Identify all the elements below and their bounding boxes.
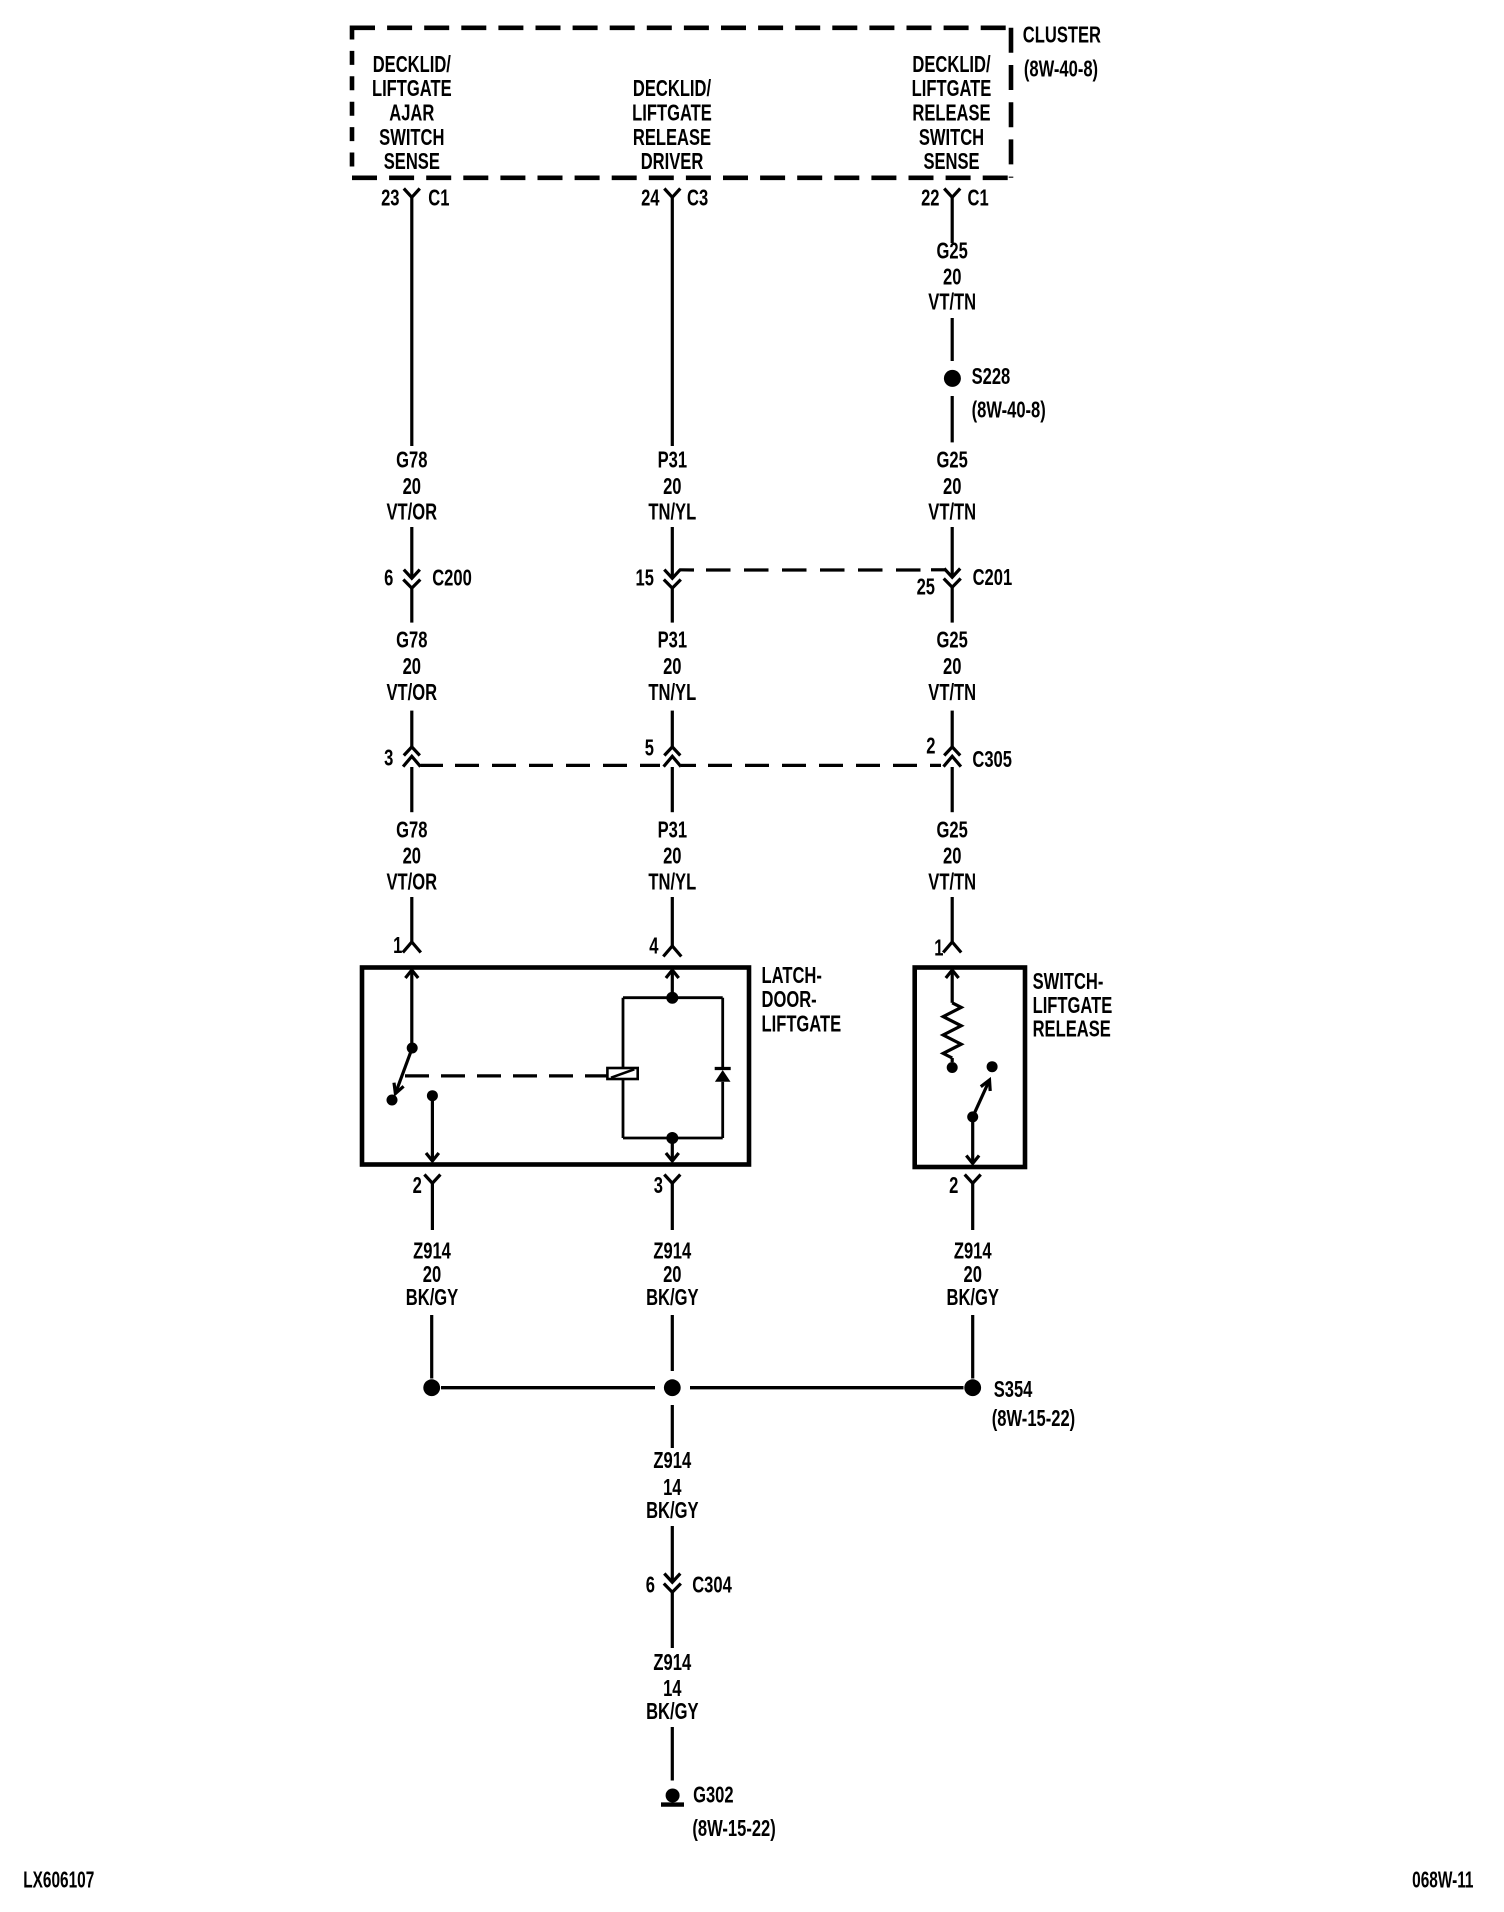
svg-text:VT/OR: VT/OR bbox=[387, 500, 438, 525]
svg-text:DECKLID/: DECKLID/ bbox=[912, 53, 991, 78]
wire pin 1 internal (arrow up) bbox=[946, 970, 959, 978]
wire G78 from C305 to latch pin 1 bbox=[410, 767, 413, 812]
wire relay loop left (from coil) bbox=[622, 1079, 625, 1138]
wire bbox=[410, 711, 413, 747]
label wire P31 20 TN/YL (lower) bbox=[648, 818, 696, 895]
svg-text:C1: C1 bbox=[428, 186, 449, 211]
svg-text:RELEASE: RELEASE bbox=[633, 125, 711, 150]
svg-text:1: 1 bbox=[393, 933, 402, 958]
connector C201 pin 25 (double chevron) bbox=[944, 569, 960, 578]
label SWITCH-LIFTGATE RELEASE bbox=[1033, 970, 1113, 1043]
wire bbox=[951, 897, 954, 942]
component SWITCH-LIFTGATE RELEASE (box) bbox=[915, 968, 1025, 1168]
label pin 2 bbox=[413, 1173, 422, 1198]
label pin 1 bbox=[934, 936, 943, 961]
svg-text:068W-11: 068W-11 bbox=[1412, 1868, 1473, 1894]
svg-text:Z914: Z914 bbox=[653, 1650, 691, 1675]
connector C304 pin 6 (double chevron) bbox=[664, 1574, 680, 1583]
wire relay loop top bbox=[623, 996, 723, 999]
connector C305 pin 3 (double chevron up) bbox=[404, 747, 420, 756]
wire G78 from pin 23 to C200 bbox=[410, 197, 413, 446]
wire bbox=[671, 711, 674, 747]
label pin 5 bbox=[645, 736, 654, 761]
label wire G78 20 VT/OR (middle) bbox=[387, 628, 438, 706]
svg-text:25: 25 bbox=[917, 575, 935, 600]
node relay bottom junction bbox=[666, 1132, 678, 1144]
svg-text:BK/GY: BK/GY bbox=[406, 1285, 459, 1310]
svg-text:VT/TN: VT/TN bbox=[928, 290, 976, 315]
svg-text:(8W-40-8): (8W-40-8) bbox=[1024, 57, 1098, 82]
svg-text:C201: C201 bbox=[973, 565, 1013, 590]
wire Z914 col C to splice S354 bbox=[971, 1315, 974, 1379]
label wire G25 20 VT/TN (first) bbox=[928, 239, 976, 315]
wire G25 from S228 to C201 bbox=[951, 396, 954, 442]
svg-text:LIFTGATE: LIFTGATE bbox=[372, 77, 452, 102]
svg-text:Z914: Z914 bbox=[653, 1239, 691, 1264]
connector switch pin 2 (Y below box) bbox=[965, 1175, 981, 1184]
wire bbox=[671, 527, 674, 578]
svg-text:14: 14 bbox=[663, 1475, 682, 1500]
svg-text:20: 20 bbox=[663, 474, 681, 499]
wire relay loop bottom bbox=[623, 1137, 723, 1140]
svg-text:VT/TN: VT/TN bbox=[928, 681, 976, 706]
wire dashed mechanical linkage to relay coil bbox=[405, 1074, 607, 1077]
label pin 6 bbox=[646, 1573, 655, 1598]
svg-text:4: 4 bbox=[649, 934, 659, 959]
connector switch pin 1 (inverted Y) bbox=[943, 942, 961, 953]
label wire G25 20 VT/TN (third) bbox=[928, 628, 976, 706]
svg-text:G302: G302 bbox=[693, 1783, 734, 1808]
label pin 22 bbox=[921, 186, 939, 211]
svg-text:6: 6 bbox=[384, 566, 393, 591]
svg-text:BK/GY: BK/GY bbox=[646, 1285, 699, 1310]
svg-text:LX606107: LX606107 bbox=[23, 1867, 94, 1893]
svg-text:S228: S228 bbox=[972, 364, 1011, 389]
svg-text:14: 14 bbox=[663, 1676, 682, 1701]
wire dashed C305 linkage right (5 to 2) bbox=[681, 764, 696, 767]
svg-text:C1: C1 bbox=[968, 186, 989, 211]
svg-text:C200: C200 bbox=[432, 566, 472, 591]
label pin 4 bbox=[649, 934, 659, 959]
wire pin 1 internal (arrow up) bbox=[405, 970, 418, 978]
svg-text:BK/GY: BK/GY bbox=[646, 1498, 699, 1523]
svg-text:2: 2 bbox=[949, 1173, 958, 1198]
svg-text:BK/GY: BK/GY bbox=[646, 1699, 699, 1724]
svg-text:G25: G25 bbox=[937, 239, 968, 264]
svg-text:23: 23 bbox=[381, 186, 399, 211]
svg-text:Z914: Z914 bbox=[954, 1239, 992, 1264]
svg-text:20: 20 bbox=[943, 265, 961, 290]
wire relay loop right (to diode) bbox=[721, 998, 724, 1069]
svg-text:G78: G78 bbox=[396, 628, 427, 653]
svg-text:(8W-40-8): (8W-40-8) bbox=[972, 398, 1046, 423]
label wire P31 20 TN/YL (middle) bbox=[648, 628, 696, 706]
label pin function DECKLID/LIFTGATE AJAR SWITCH SENSE bbox=[372, 53, 452, 175]
wire bbox=[951, 711, 954, 747]
wire relay loop right (from diode) bbox=[721, 1082, 724, 1138]
svg-text:G25: G25 bbox=[937, 818, 968, 843]
svg-text:6: 6 bbox=[646, 1573, 655, 1598]
svg-text:LIFTGATE: LIFTGATE bbox=[632, 101, 712, 126]
wire pin 4 internal (arrow up) bbox=[666, 970, 679, 978]
svg-text:VT/OR: VT/OR bbox=[387, 870, 438, 895]
svg-text:DRIVER: DRIVER bbox=[641, 149, 704, 174]
svg-text:C304: C304 bbox=[692, 1573, 732, 1598]
svg-text:LIFTGATE: LIFTGATE bbox=[912, 77, 992, 102]
svg-text:P31: P31 bbox=[658, 448, 687, 473]
label wire G25 20 VT/TN (fourth) bbox=[928, 818, 976, 895]
svg-text:3: 3 bbox=[384, 746, 393, 771]
label wire Z914 14 BK/GY (lower) bbox=[646, 1650, 699, 1724]
relay coil K1 bbox=[607, 1068, 637, 1079]
switch blade (latch ajar switch) bbox=[395, 1048, 412, 1094]
wire bbox=[671, 897, 674, 946]
svg-text:20: 20 bbox=[943, 474, 961, 499]
label connector C304 bbox=[692, 1573, 732, 1598]
svg-text:DOOR-: DOOR- bbox=[762, 988, 817, 1013]
svg-text:20: 20 bbox=[963, 1262, 981, 1287]
label pin 3 bbox=[654, 1173, 663, 1198]
label wire G78 20 VT/OR (upper) bbox=[387, 448, 438, 525]
label connector C305 bbox=[972, 747, 1012, 772]
svg-text:24: 24 bbox=[641, 186, 660, 211]
svg-text:15: 15 bbox=[635, 566, 653, 591]
svg-text:G78: G78 bbox=[396, 448, 427, 473]
wire dashed C305 linkage left (3 to 5) bbox=[421, 764, 444, 767]
svg-text:20: 20 bbox=[403, 655, 421, 680]
wire bbox=[671, 1727, 674, 1781]
label connector C1 bbox=[968, 186, 989, 211]
diode D1 (anode triangle) bbox=[715, 1070, 731, 1082]
splice S228 bbox=[944, 370, 961, 387]
svg-text:20: 20 bbox=[663, 655, 681, 680]
wire bbox=[410, 897, 413, 942]
label pin 2 bbox=[949, 1173, 958, 1198]
label pin 15 bbox=[635, 566, 653, 591]
svg-text:TN/YL: TN/YL bbox=[648, 870, 696, 895]
svg-text:Z914: Z914 bbox=[653, 1448, 691, 1473]
connector latch pin 2 (Y below box) bbox=[424, 1175, 440, 1184]
svg-text:LIFTGATE: LIFTGATE bbox=[1033, 993, 1113, 1018]
label ground G302 bbox=[692, 1783, 775, 1841]
label pin function DECKLID/LIFTGATE RELEASE SWITCH SENSE bbox=[912, 53, 992, 175]
svg-text:C305: C305 bbox=[972, 747, 1012, 772]
wire P31 from C305 to latch pin 4 bbox=[671, 767, 674, 812]
wire pin 3 internal (arrow down) bbox=[671, 1138, 674, 1161]
svg-text:20: 20 bbox=[943, 655, 961, 680]
wire bbox=[951, 318, 954, 361]
wire resistor to contact bbox=[951, 1058, 954, 1062]
svg-text:G25: G25 bbox=[937, 628, 968, 653]
svg-text:TN/YL: TN/YL bbox=[648, 681, 696, 706]
svg-text:SENSE: SENSE bbox=[923, 149, 979, 174]
wire P31 from C201 to C305 bbox=[671, 588, 674, 623]
connector pin 22 C1 (cluster, col C) bbox=[944, 189, 960, 198]
svg-text:C3: C3 bbox=[687, 186, 708, 211]
svg-text:LIFTGATE: LIFTGATE bbox=[762, 1012, 842, 1037]
label splice S354 bbox=[992, 1377, 1075, 1431]
wire bbox=[410, 527, 413, 578]
svg-text:RELEASE: RELEASE bbox=[912, 101, 990, 126]
wire G78 from C200 to C305 bbox=[410, 588, 413, 623]
component LATCH-DOOR-LIFTGATE (box) bbox=[362, 968, 749, 1165]
node switch pivot lower bbox=[967, 1111, 978, 1122]
connector C200 pin 6 (double chevron) bbox=[404, 570, 420, 579]
wire G25 from C201 to C305 bbox=[951, 587, 954, 622]
svg-text:DECKLID/: DECKLID/ bbox=[373, 53, 452, 78]
wire bbox=[951, 527, 954, 577]
svg-text:P31: P31 bbox=[658, 628, 687, 653]
svg-text:(8W-15-22): (8W-15-22) bbox=[692, 1816, 775, 1841]
svg-text:Z914: Z914 bbox=[413, 1239, 451, 1264]
label CLUSTER name bbox=[1023, 23, 1102, 82]
connector pin 24 C3 (cluster, col B) bbox=[664, 189, 680, 198]
label connector C201 bbox=[973, 565, 1013, 590]
connector pin 15 (double chevron, C201) bbox=[664, 570, 680, 579]
label pin 6 bbox=[384, 566, 393, 591]
node splice S354 middle dot bbox=[664, 1379, 681, 1396]
svg-text:1: 1 bbox=[934, 936, 943, 961]
wire Z914 col B to splice S354 bbox=[671, 1315, 674, 1371]
connector latch pin 4 (inverted Y) bbox=[663, 946, 681, 957]
label pin 23 bbox=[381, 186, 399, 211]
label splice S228 bbox=[972, 364, 1046, 423]
label wire G25 20 VT/TN (second) bbox=[928, 448, 976, 525]
svg-text:G25: G25 bbox=[937, 448, 968, 473]
wire dashed C201 linkage (15 to 25) bbox=[679, 568, 694, 571]
label wire Z914 20 BK/GY (col B) bbox=[646, 1239, 699, 1311]
svg-text:20: 20 bbox=[403, 844, 421, 869]
label wire Z914 14 BK/GY (upper) bbox=[646, 1448, 699, 1523]
label sheet id 068W-11 bbox=[1412, 1868, 1473, 1894]
node resistor contact bbox=[947, 1062, 958, 1073]
svg-text:20: 20 bbox=[663, 844, 681, 869]
connector latch pin 1 (inverted Y) bbox=[403, 942, 421, 953]
svg-text:DECKLID/: DECKLID/ bbox=[633, 77, 712, 102]
svg-text:VT/TN: VT/TN bbox=[928, 500, 976, 525]
label pin 3 bbox=[384, 746, 393, 771]
svg-text:CLUSTER: CLUSTER bbox=[1023, 23, 1102, 48]
svg-text:SENSE: SENSE bbox=[384, 149, 440, 174]
svg-text:20: 20 bbox=[943, 844, 961, 869]
svg-text:20: 20 bbox=[663, 1262, 681, 1287]
label connector C200 bbox=[432, 566, 472, 591]
wire pin 2 internal (arrow down) bbox=[431, 1096, 434, 1161]
svg-text:20: 20 bbox=[423, 1262, 441, 1287]
wire Z914 from C304 to ground bbox=[671, 1592, 674, 1648]
svg-text:SWITCH: SWITCH bbox=[379, 125, 444, 150]
svg-text:AJAR: AJAR bbox=[389, 101, 435, 126]
label pin 24 bbox=[641, 186, 660, 211]
connector pin 23 C1 (cluster, col A) bbox=[404, 189, 420, 198]
node stationary contact (open) bbox=[387, 1095, 398, 1106]
svg-text:RELEASE: RELEASE bbox=[1033, 1017, 1111, 1042]
svg-text:22: 22 bbox=[921, 186, 939, 211]
label connector C3 bbox=[687, 186, 708, 211]
label wire P31 20 TN/YL (upper) bbox=[648, 448, 696, 525]
svg-text:2: 2 bbox=[413, 1173, 422, 1198]
ground G302 bbox=[666, 1789, 680, 1803]
wire Z914 below splice bbox=[671, 1405, 674, 1448]
svg-text:5: 5 bbox=[645, 736, 654, 761]
svg-text:VT/OR: VT/OR bbox=[387, 681, 438, 706]
svg-text:20: 20 bbox=[403, 474, 421, 499]
connector C305 pin 5 (double chevron up) bbox=[664, 747, 680, 756]
wire splice S354 bus (left segment) bbox=[441, 1386, 655, 1389]
svg-text:P31: P31 bbox=[658, 818, 687, 843]
svg-text:(8W-15-22): (8W-15-22) bbox=[992, 1406, 1075, 1431]
svg-text:S354: S354 bbox=[994, 1377, 1033, 1402]
label wire Z914 20 BK/GY (col A) bbox=[406, 1239, 459, 1311]
resistor R1 bbox=[943, 1003, 961, 1058]
svg-text:TN/YL: TN/YL bbox=[648, 500, 696, 525]
node splice S354 left dot bbox=[423, 1379, 440, 1396]
label connector C1 bbox=[428, 186, 449, 211]
node relay top junction bbox=[666, 992, 678, 1004]
label pin 1 bbox=[393, 933, 402, 958]
label pin 2 bbox=[926, 734, 935, 759]
svg-text:BK/GY: BK/GY bbox=[946, 1285, 999, 1310]
node upper contact (release switch) bbox=[987, 1061, 998, 1072]
label pin function DECKLID/LIFTGATE RELEASE DRIVER bbox=[632, 77, 712, 175]
node switch pivot bbox=[407, 1043, 418, 1054]
wire Z914 col A to splice S354 bbox=[430, 1315, 433, 1379]
label LATCH-DOOR-LIFTGATE bbox=[762, 963, 842, 1037]
wire P31 from pin 24 to C201 row bbox=[671, 197, 674, 446]
wire G25 from pin 22 to S228 bbox=[951, 197, 954, 243]
label pin 25 bbox=[917, 575, 935, 600]
wire bbox=[671, 1526, 674, 1582]
svg-text:G78: G78 bbox=[396, 818, 427, 843]
wire pin 2 internal (arrow down) bbox=[971, 1117, 974, 1164]
wire G25 from C305 to switch pin 1 bbox=[951, 767, 954, 812]
label sheet id LX606107 bbox=[23, 1867, 94, 1893]
node contact to pin 2 bbox=[427, 1090, 438, 1101]
svg-text:3: 3 bbox=[654, 1173, 663, 1198]
label wire G78 20 VT/OR (lower) bbox=[387, 818, 438, 895]
svg-text:VT/TN: VT/TN bbox=[928, 870, 976, 895]
connector latch pin 3 (Y below box) bbox=[664, 1175, 680, 1184]
label wire Z914 20 BK/GY (col C) bbox=[946, 1239, 999, 1311]
diode D1 (cathode bar) bbox=[715, 1067, 731, 1070]
wire relay loop left (to coil) bbox=[622, 998, 625, 1068]
svg-text:LATCH-: LATCH- bbox=[762, 963, 822, 988]
node splice S354 right dot bbox=[964, 1379, 981, 1396]
component CLUSTER (dashed box) bbox=[350, 26, 1011, 178]
svg-text:SWITCH: SWITCH bbox=[919, 125, 984, 150]
svg-text:SWITCH-: SWITCH- bbox=[1033, 970, 1104, 995]
switch blade (liftgate release) bbox=[973, 1080, 990, 1117]
wire splice S354 bus (right segment) bbox=[690, 1386, 964, 1389]
connector C305 pin 2 (double chevron up) bbox=[944, 747, 960, 756]
svg-text:2: 2 bbox=[926, 734, 935, 759]
